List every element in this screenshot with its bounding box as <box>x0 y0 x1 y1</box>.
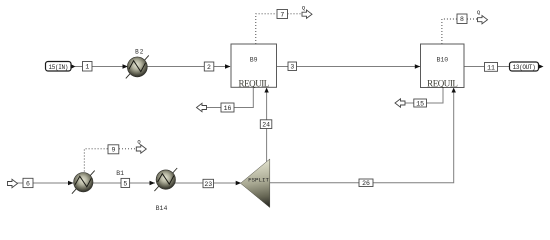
svg-text:8: 8 <box>460 16 464 23</box>
svg-text:B1: B1 <box>116 170 124 177</box>
svg-text:B10: B10 <box>436 56 448 63</box>
svg-text:26: 26 <box>362 180 370 187</box>
svg-text:B9: B9 <box>250 56 258 63</box>
svg-text:9: 9 <box>111 147 115 154</box>
svg-text:15: 15 <box>416 100 424 107</box>
svg-text:Q: Q <box>477 9 481 16</box>
svg-text:REQUIL: REQUIL <box>239 78 269 88</box>
svg-text:Q: Q <box>302 5 306 12</box>
svg-text:2: 2 <box>207 64 211 71</box>
svg-text:3: 3 <box>290 64 294 71</box>
svg-text:5: 5 <box>123 180 127 187</box>
svg-text:7: 7 <box>280 11 284 18</box>
svg-text:REQUIL: REQUIL <box>427 78 457 88</box>
svg-text:16: 16 <box>224 105 232 112</box>
svg-text:23: 23 <box>204 181 212 188</box>
svg-text:FSPLIT: FSPLIT <box>248 177 269 184</box>
svg-text:B2: B2 <box>135 49 144 56</box>
svg-text:13(OUT): 13(OUT) <box>513 64 536 71</box>
svg-text:15(IN): 15(IN) <box>48 64 68 71</box>
svg-text:24: 24 <box>262 122 270 129</box>
svg-text:B14: B14 <box>156 205 168 212</box>
svg-text:6: 6 <box>26 180 30 187</box>
svg-text:1: 1 <box>85 64 89 71</box>
svg-text:11: 11 <box>487 64 495 71</box>
